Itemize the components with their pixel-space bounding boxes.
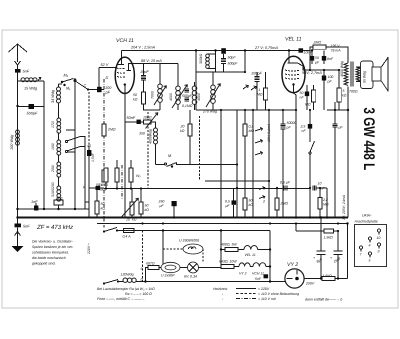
svg-text:schiebbares Kernpaket,: schiebbares Kernpaket, — [32, 251, 69, 255]
svg-text:U 2508/6008: U 2508/6008 — [179, 239, 199, 243]
svg-text:2MΩ: 2MΩ — [107, 128, 116, 132]
svg-text:= 110 V ohne Beleuchtung: = 110 V ohne Beleuchtung — [258, 292, 299, 296]
wire IF1 arrow — [154, 86, 166, 105]
wire mains v221 — [220, 231, 222, 268]
coil IF2 primary — [177, 64, 179, 87]
tube VCH11 anode1 — [117, 64, 124, 66]
capacitor 5nF heater — [264, 274, 269, 278]
potentiometer volume taps — [252, 110, 254, 218]
svg-text:500pF: 500pF — [27, 112, 38, 116]
UKW pin 4 — [368, 237, 371, 240]
svg-text:2MΩ: 2MΩ — [280, 202, 289, 206]
resistor 2kOhm tank — [54, 200, 63, 205]
capacitor 16uF electrolytic — [337, 230, 339, 232]
coil 300k — [206, 54, 210, 68]
svg-text:kΩ: kΩ — [101, 207, 106, 211]
wire input tank right — [43, 81, 45, 209]
resistor 1,5k smooth label — [346, 222, 348, 224]
capacitor 50pF — [221, 48, 226, 54]
svg-text:100: 100 — [105, 86, 112, 90]
wire osc coil tap — [146, 113, 158, 129]
svg-text:Heizkreis: Heizkreis — [213, 287, 228, 291]
svg-text:gekoppelt sind.: gekoppelt sind. — [32, 262, 56, 266]
tube VCH11 cathode — [124, 83, 126, 85]
coil 100 — [57, 140, 61, 155]
svg-text:50: 50 — [315, 56, 319, 60]
wire right top bus y110 — [327, 109, 348, 111]
svg-text:Die Vorkreis- u. Oszillator-: Die Vorkreis- u. Oszillator- — [32, 240, 73, 244]
coil 100 Wdg — [16, 130, 20, 145]
svg-text:kΩ: kΩ — [133, 98, 138, 102]
resistor 0,2MOhm — [244, 110, 246, 124]
svg-text:2,5: 2,5 — [300, 125, 306, 129]
svg-text:6V; 0,3A: 6V; 0,3A — [184, 275, 198, 279]
svg-text:5nF: 5nF — [23, 225, 30, 229]
svg-text:1: 1 — [259, 88, 261, 92]
resistor 2MOhm avc — [102, 124, 106, 136]
resistor tap 50k — [115, 168, 119, 182]
svg-text:280/: 280/ — [51, 164, 55, 173]
resistor 50kOhm vch — [142, 92, 146, 104]
tube VEL11 anode — [288, 62, 298, 64]
lamp dial — [180, 267, 188, 269]
wire HT right down — [347, 87, 349, 218]
wire antenna column down — [17, 106, 19, 218]
svg-text:52 V: 52 V — [101, 63, 109, 67]
svg-text:20: 20 — [180, 125, 185, 129]
tube VCH11 anode2 — [127, 70, 132, 72]
svg-text:100 Wdg: 100 Wdg — [10, 134, 14, 150]
capacitor 10nF af — [313, 186, 316, 191]
speaker frame — [361, 61, 374, 89]
svg-text:700Ω: 700Ω — [349, 90, 358, 94]
svg-text:607Ω: 607Ω — [146, 262, 155, 266]
svg-text:a: a — [141, 267, 143, 271]
svg-text:270 Wdg: 270 Wdg — [202, 110, 217, 114]
capacitor 5nF earth — [17, 218, 19, 225]
capacitor 50nF cath — [125, 121, 137, 123]
svg-text:100/: 100/ — [51, 142, 55, 150]
wire tuning gang dashed vertical left — [88, 92, 90, 146]
svg-text:10: 10 — [377, 236, 381, 240]
svg-text:VEL 11: VEL 11 — [245, 253, 256, 257]
resistor 100 Ohm — [144, 120, 152, 124]
resistor 1MOhm grid — [264, 88, 268, 100]
svg-text:4000: 4000 — [169, 93, 173, 101]
svg-text:= 110 V mit: = 110 V mit — [258, 297, 277, 301]
resistor W2 — [129, 168, 133, 182]
resistor 1MOhm cath — [312, 90, 316, 102]
transformer output primary — [344, 63, 348, 85]
resistor heater dropper — [296, 230, 324, 232]
tube VY2 envelope — [285, 269, 304, 288]
wire anode out — [298, 63, 340, 70]
svg-text:die beide mechanisch: die beide mechanisch — [32, 256, 66, 260]
svg-text:1,5nF: 1,5nF — [91, 152, 95, 162]
svg-text:0,5 μF: 0,5 μF — [280, 181, 291, 185]
wire C to grid cap — [88, 89, 97, 91]
svg-text:50pF: 50pF — [228, 56, 237, 60]
coil 310 — [57, 186, 61, 201]
detector chevrons — [243, 85, 248, 89]
node bus — [16, 216, 18, 218]
capacitor 50nF cath — [306, 85, 308, 92]
svg-text:50nF: 50nF — [127, 116, 136, 120]
wire dashed 110V vertical — [142, 231, 144, 282]
tube VEL11 cathode — [292, 83, 294, 85]
svg-text:100: 100 — [328, 75, 334, 79]
heater VCH11 — [250, 266, 253, 268]
svg-text:5nF: 5nF — [23, 70, 30, 74]
wire tank return line — [18, 209, 90, 218]
transformer secondary — [356, 67, 360, 81]
svg-text:kΩ: kΩ — [145, 208, 150, 212]
wire af right — [326, 188, 328, 218]
svg-text:10: 10 — [126, 218, 130, 222]
coil 15 Wdg — [18, 80, 45, 82]
wire AF line y188 — [104, 188, 310, 190]
svg-text:4000: 4000 — [197, 93, 201, 101]
resistor 2MOhm top — [310, 47, 313, 51]
svg-text:195 V: 195 V — [331, 44, 341, 48]
svg-text:310/0200: 310/0200 — [51, 182, 55, 197]
svg-text:5: 5 — [369, 259, 371, 263]
wire pot dash link — [121, 165, 123, 199]
capacitor 50uF — [311, 51, 313, 57]
wire coil to switch — [155, 144, 157, 165]
heater VY2 — [239, 263, 250, 267]
svg-text:kΩ: kΩ — [132, 218, 137, 222]
rectifier U2508 oval — [183, 244, 203, 254]
wire feed — [195, 51, 197, 111]
UKW pin 7 — [359, 246, 362, 249]
svg-text:MΩ: MΩ — [323, 203, 329, 207]
wire col 296 — [295, 109, 297, 111]
wire switch commons — [80, 137, 85, 210]
wire right col down — [347, 224, 349, 279]
tube VEL11 envelope — [282, 56, 305, 92]
capacitor 8nF — [323, 51, 325, 57]
UKW pin 5 — [368, 252, 371, 255]
svg-text:5nF: 5nF — [255, 277, 262, 281]
potentiometer 10k — [130, 202, 134, 215]
capacitor 5nF antenna — [15, 69, 21, 73]
resistor 50k 2 — [139, 202, 143, 214]
capacitor 8uF electrolytic — [320, 218, 322, 251]
svg-text:85 Wdg: 85 Wdg — [363, 71, 367, 83]
capacitor 100pF anode — [323, 70, 325, 76]
svg-text:1nF: 1nF — [31, 200, 38, 204]
pickup contacts — [259, 187, 265, 190]
svg-text:4: 4 — [369, 244, 371, 248]
resistor 5kOhm — [337, 88, 341, 102]
svg-text:Anschlußplatte: Anschlußplatte — [354, 220, 378, 224]
svg-text:50000: 50000 — [287, 121, 297, 125]
coil 34 Wdg — [57, 87, 61, 103]
ground — [15, 228, 21, 247]
fuse 0,4A — [117, 230, 124, 232]
resistor 2,2MOhm — [318, 198, 322, 210]
wire det column — [220, 110, 222, 218]
svg-text:100Ω: 100Ω — [143, 116, 152, 120]
svg-text:μF: μF — [225, 204, 231, 208]
capacitor 1nF — [34, 206, 38, 211]
capacitor 1,5nF padder — [87, 150, 91, 156]
coil IF1 primary 7000 — [159, 64, 161, 85]
speaker magnet — [372, 67, 381, 81]
svg-text:μF: μF — [314, 61, 320, 65]
wire chassis bus — [18, 217, 349, 219]
svg-text:VCH 11: VCH 11 — [116, 38, 134, 44]
svg-text:10pF: 10pF — [140, 70, 149, 74]
resistor 0,1MOhm osc — [102, 170, 106, 182]
wire heater join — [269, 231, 271, 282]
capacitor 100pF coupling — [244, 51, 246, 73]
svg-text:172/: 172/ — [51, 120, 55, 128]
svg-text:10; 205V; 24mA: 10; 205V; 24mA — [342, 194, 346, 220]
svg-text:15 Wdg: 15 Wdg — [24, 87, 38, 91]
capacitor 0,1uF right — [334, 102, 336, 124]
svg-text:D: D — [106, 76, 109, 80]
wire tone to chassis — [309, 188, 311, 218]
svg-text:50: 50 — [104, 183, 108, 187]
node bus2 dots — [141, 222, 143, 224]
svg-text:50: 50 — [101, 202, 105, 206]
svg-text:kΩ: kΩ — [180, 129, 185, 133]
wire HT top bus 204V — [122, 50, 311, 52]
coil osc 4000Wdg — [154, 128, 158, 144]
taps a b — [145, 268, 147, 282]
UKW pin 9 — [377, 243, 380, 246]
capacitor 500pF — [29, 104, 35, 109]
svg-text:1: 1 — [306, 98, 308, 102]
svg-text:500pF: 500pF — [182, 94, 193, 98]
resistor 20kOhm — [188, 124, 192, 136]
coil 172 — [57, 118, 61, 133]
svg-text:Ra = – – = 100 Ω: Ra = – – = 100 Ω — [125, 292, 152, 296]
svg-text:+: + — [330, 256, 332, 260]
svg-text:0,1: 0,1 — [98, 183, 103, 187]
resistor 50kOhm af — [243, 198, 247, 210]
UKW panel box — [355, 225, 387, 267]
tube VCH11 envelope — [115, 57, 134, 93]
resistor 50k bias — [95, 201, 99, 214]
svg-text:+: + — [313, 256, 315, 260]
wire AVC dash-dot vertical — [103, 79, 105, 170]
coil IF2 secondary — [192, 86, 197, 104]
tube VEL11 grids — [285, 70, 300, 71]
resistor AVC 0,1M — [104, 168, 108, 182]
capacitor 5nF osc — [96, 186, 101, 190]
tube VY2 electrodes — [287, 278, 293, 280]
svg-text:MΩ: MΩ — [257, 93, 263, 97]
wire screen top — [309, 51, 311, 71]
svg-text:Ferte -------, entfällt C ←——→: Ferte -------, entfällt C ←——→ — [97, 297, 145, 301]
svg-text:204 V ; 2,5mA: 204 V ; 2,5mA — [130, 46, 156, 50]
svg-text:MΩ: MΩ — [249, 129, 255, 133]
svg-text:120Wdg: 120Wdg — [121, 273, 134, 277]
svg-text:50: 50 — [300, 91, 304, 95]
wire screen bus y110 — [196, 109, 296, 111]
svg-text:μF: μF — [159, 204, 165, 208]
capacitor 50000pF — [282, 110, 284, 124]
svg-text:50: 50 — [145, 204, 149, 208]
resistor 2MOhm af — [275, 198, 279, 210]
svg-text:98V; 2,7mA: 98V; 2,7mA — [302, 71, 322, 75]
svg-text:88 V; 15 mA: 88 V; 15 mA — [141, 59, 162, 63]
antenna — [9, 44, 28, 62]
wire col 269 — [268, 110, 270, 218]
svg-text:0,1MΩ: 0,1MΩ — [182, 104, 193, 108]
wire VY2 out — [304, 278, 322, 280]
svg-text:b: b — [141, 278, 143, 282]
wire lamp branch — [162, 231, 164, 268]
switch tone — [310, 141, 315, 152]
svg-text:9: 9 — [378, 250, 380, 254]
svg-text:4000 Wdg: 4000 Wdg — [340, 61, 344, 77]
svg-text:10: 10 — [318, 182, 322, 186]
svg-text:VY 2: VY 2 — [239, 272, 247, 276]
svg-text:VEL 11: VEL 11 — [285, 37, 302, 43]
svg-text:M₂: M₂ — [64, 74, 69, 78]
svg-text:pF: pF — [327, 80, 333, 84]
svg-text:4000Wdg: 4000Wdg — [149, 129, 153, 144]
wire screen right down — [309, 110, 311, 142]
svg-text:350: 350 — [139, 132, 145, 136]
svg-text:= 220V: = 220V — [258, 287, 270, 291]
svg-text:34 Wdg: 34 Wdg — [51, 89, 55, 103]
svg-text:ZF = 473 kHz: ZF = 473 kHz — [36, 224, 73, 231]
switch mains pole2 — [104, 280, 118, 284]
wire heater feed line — [295, 224, 297, 232]
lamp scale — [159, 267, 161, 269]
capacitor 10nF top — [299, 48, 304, 52]
svg-text:8nF: 8nF — [327, 57, 334, 61]
coil 270Wdg — [211, 85, 216, 103]
wire AF line y181 — [205, 180, 269, 182]
svg-text:0,4 A: 0,4 A — [123, 235, 132, 239]
capacitor 500pF osc — [223, 54, 225, 58]
svg-text:27 V; 0,75mA: 27 V; 0,75mA — [254, 46, 278, 50]
capacitor 100pF grid — [97, 87, 102, 92]
svg-text:643Ω, 10W: 643Ω, 10W — [219, 260, 237, 264]
svg-text:5: 5 — [343, 89, 345, 93]
wire anode bus 88V — [134, 63, 178, 65]
svg-text:1,5kΩ: 1,5kΩ — [324, 236, 334, 240]
svg-text:220V∼: 220V∼ — [87, 243, 91, 255]
svg-text:250V: 250V — [305, 282, 315, 286]
svg-text:VY 2: VY 2 — [287, 262, 298, 268]
wire band wires — [74, 78, 76, 209]
svg-text:2MΩ: 2MΩ — [313, 41, 322, 45]
svg-text:pF: pF — [286, 126, 292, 130]
switch mains pole1 — [104, 228, 117, 232]
wire antenna down — [17, 65, 19, 106]
node — [16, 105, 18, 107]
coil 280 — [57, 162, 61, 177]
tube VCH11 grids — [117, 67, 126, 70]
svg-text:40kΩ: 40kΩ — [98, 188, 107, 192]
svg-text:2: 2 — [262, 200, 265, 204]
speaker cone — [381, 57, 388, 92]
svg-text:Bei Lautstärkeregler Ra (at W₂: Bei Lautstärkeregler Ra (at W₂ = 1kΩ — [97, 287, 155, 291]
svg-text:U 2x50P: U 2x50P — [161, 274, 175, 278]
svg-text:50: 50 — [133, 93, 137, 97]
heater VEL11 — [244, 246, 258, 250]
svg-text:3 GW 448 L: 3 GW 448 L — [360, 108, 377, 171]
svg-text:MΩ: MΩ — [305, 103, 311, 107]
switch band b — [67, 147, 80, 152]
wire IF2 arrow — [172, 85, 187, 108]
transformer core — [351, 62, 353, 87]
wire lower bus — [97, 223, 348, 225]
capacitor 10pF — [143, 64, 145, 76]
wire osc arrow — [206, 84, 220, 107]
svg-text:500pF: 500pF — [228, 62, 239, 66]
svg-text:0,5: 0,5 — [225, 200, 230, 204]
svg-text:kΩ: kΩ — [342, 94, 347, 98]
svg-text:50: 50 — [249, 199, 253, 203]
resistor W2 top — [85, 201, 89, 203]
svg-text:VCH 11: VCH 11 — [252, 272, 264, 276]
svg-text:100pF: 100pF — [251, 72, 262, 76]
svg-text:dann entfällt de——→ b: dann entfällt de——→ b — [305, 298, 342, 302]
wire osc mid — [196, 71, 245, 73]
wire tuning gang dashed vertical mid — [147, 112, 149, 189]
svg-text:μF: μF — [338, 126, 344, 130]
wire 500pF link — [18, 106, 45, 108]
svg-text:400Ω, 5W: 400Ω, 5W — [221, 243, 237, 247]
svg-text:78 mA: 78 mA — [331, 49, 342, 53]
switch band a — [67, 137, 80, 142]
svg-text:W₂: W₂ — [136, 174, 141, 178]
capacitor IF2 500pF — [185, 89, 190, 92]
UKW pin 10 — [377, 229, 380, 232]
svg-text:300kΩ: 300kΩ — [199, 53, 203, 64]
wire tuning gang dashed vertical osc — [199, 116, 201, 181]
svg-text:UKW-: UKW- — [362, 214, 372, 218]
svg-text:7000: 7000 — [151, 91, 155, 99]
svg-text:pF: pF — [105, 91, 111, 95]
svg-text:250: 250 — [158, 200, 165, 204]
wire af column — [236, 110, 238, 218]
svg-text:Spulen besitzen je ein ver-: Spulen besitzen je ein ver- — [32, 245, 74, 249]
wire coil column — [58, 84, 60, 209]
svg-text:kΩ: kΩ — [249, 203, 254, 207]
